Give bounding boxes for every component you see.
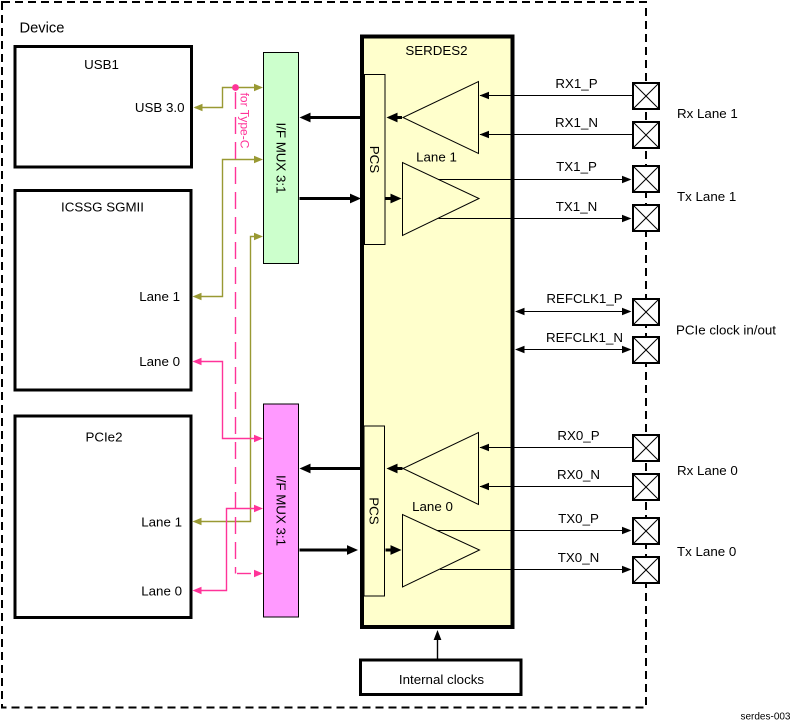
svg-text:Device: Device bbox=[20, 21, 65, 37]
svg-text:Tx Lane 0: Tx Lane 0 bbox=[677, 544, 736, 559]
svg-text:RX1_N: RX1_N bbox=[555, 115, 598, 130]
svg-text:RX0_P: RX0_P bbox=[557, 428, 599, 443]
svg-text:serdes-003: serdes-003 bbox=[740, 712, 790, 721]
svg-text:Rx Lane 0: Rx Lane 0 bbox=[677, 463, 738, 478]
svg-text:Tx Lane 1: Tx Lane 1 bbox=[677, 189, 736, 204]
svg-text:Rx Lane 1: Rx Lane 1 bbox=[677, 106, 738, 121]
svg-text:Lane 0: Lane 0 bbox=[141, 583, 182, 598]
svg-text:I/F MUX 3:1: I/F MUX 3:1 bbox=[274, 122, 289, 193]
svg-text:ICSSG SGMII: ICSSG SGMII bbox=[61, 200, 144, 215]
svg-text:Internal clocks: Internal clocks bbox=[399, 672, 485, 687]
svg-text:PCIe clock in/out: PCIe clock in/out bbox=[676, 323, 776, 338]
svg-text:PCIe2: PCIe2 bbox=[85, 430, 122, 445]
svg-text:TX0_N: TX0_N bbox=[558, 550, 599, 565]
svg-text:Lane 1: Lane 1 bbox=[141, 514, 182, 529]
svg-text:Lane 0: Lane 0 bbox=[139, 354, 180, 369]
svg-text:USB1: USB1 bbox=[84, 57, 119, 72]
svg-text:RX1_P: RX1_P bbox=[555, 76, 597, 91]
svg-text:TX1_N: TX1_N bbox=[556, 199, 597, 214]
svg-text:Lane 0: Lane 0 bbox=[412, 499, 453, 514]
svg-text:PCS: PCS bbox=[367, 497, 382, 525]
svg-text:REFCLK1_N: REFCLK1_N bbox=[546, 330, 623, 345]
svg-text:TX0_P: TX0_P bbox=[558, 511, 599, 526]
svg-text:TX1_P: TX1_P bbox=[556, 159, 597, 174]
svg-text:SERDES2: SERDES2 bbox=[405, 43, 467, 58]
svg-text:RX0_N: RX0_N bbox=[557, 467, 600, 482]
svg-text:for Type-C: for Type-C bbox=[237, 93, 251, 149]
svg-text:PCS: PCS bbox=[367, 146, 382, 174]
svg-text:Lane 1: Lane 1 bbox=[416, 150, 457, 165]
svg-text:I/F MUX 3:1: I/F MUX 3:1 bbox=[274, 475, 289, 546]
svg-text:USB 3.0: USB 3.0 bbox=[135, 100, 185, 115]
svg-text:Lane 1: Lane 1 bbox=[139, 289, 180, 304]
svg-text:REFCLK1_P: REFCLK1_P bbox=[546, 291, 622, 306]
